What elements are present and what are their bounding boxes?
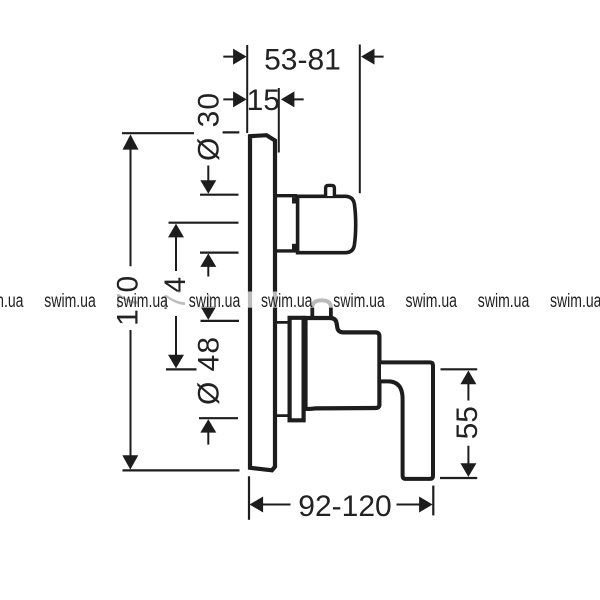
diameter 48 dimension stems — [207, 295, 209, 445]
arrow 170 top — [123, 134, 139, 149]
92-120 extension line right — [432, 486, 434, 516]
arrow 170 bottom — [122, 455, 138, 469]
arrow 74 bottom — [168, 355, 184, 369]
53-81 extension line right (knob tip) — [359, 45, 361, 194]
74 top extension line — [169, 222, 239, 224]
53-81 dimension stems — [223, 56, 383, 58]
diameter 48 top tick — [201, 320, 240, 322]
neck stubs joining plate to flange — [277, 322, 290, 415]
collar sleeve between plate and thermostat knob — [277, 196, 297, 251]
valve body (lower, behind flange) — [306, 318, 380, 409]
svg-text:92-120: 92-120 — [298, 490, 391, 523]
thermostat knob (upper handle) — [298, 196, 356, 252]
170 top tick — [122, 131, 239, 134]
arrow dia30 down — [200, 180, 216, 194]
diameter 30 dimension stems — [207, 166, 209, 277]
svg-text:15: 15 — [247, 84, 280, 117]
svg-text:swim.ua: swim.ua — [406, 290, 458, 312]
arrow 15 left — [233, 91, 247, 107]
knob top index tab — [326, 185, 335, 196]
svg-text:swim.ua: swim.ua — [189, 290, 241, 312]
svg-text:Ø 30: Ø 30 — [192, 92, 225, 161]
diameter 30 bottom tick — [200, 252, 239, 254]
170 dimension line — [130, 149, 132, 456]
arrow 74 top — [168, 224, 184, 238]
74 dimension line — [175, 237, 177, 355]
svg-text:swim.ua: swim.ua — [333, 290, 385, 312]
collar notch lower — [292, 244, 297, 250]
arrow 53-81 left — [233, 49, 247, 65]
watermark band overlay — [0, 292, 600, 308]
92-120 extension line left — [248, 476, 250, 520]
15 extension line right (plate front) — [278, 88, 280, 153]
92-120 dimension stems — [263, 504, 420, 506]
55 dimension stems — [467, 384, 469, 464]
svg-text:swim.ua: swim.ua — [117, 290, 169, 312]
diameter 48 bottom tick — [199, 417, 238, 419]
arrow dia30 up — [200, 253, 216, 267]
shut-off lever handle — [381, 362, 433, 479]
svg-text:55: 55 — [451, 406, 484, 439]
arrow 55 top — [460, 371, 476, 385]
arrow 53-81 right — [361, 49, 375, 65]
arrow 92-120 left — [250, 497, 264, 513]
arrow 55 bottom — [460, 463, 476, 477]
arrow dia48 up — [200, 419, 216, 432]
wall plate (escutcheon, side view) — [250, 135, 275, 470]
arrow 92-120 right — [419, 497, 433, 513]
watermark texts swim.ua — [0, 290, 600, 312]
mounting flange — [290, 318, 304, 421]
svg-text:swim.ua: swim.ua — [478, 290, 530, 312]
74 bottom tick — [166, 368, 197, 370]
arrow dia48 down — [200, 306, 216, 320]
arrow 15 right — [281, 91, 295, 107]
55 bottom tick — [440, 477, 477, 479]
svg-text:swim.ua: swim.ua — [261, 290, 313, 312]
svg-text:Ø 48: Ø 48 — [192, 336, 225, 405]
collar notch upper — [292, 197, 297, 203]
svg-text:53-81: 53-81 — [264, 43, 341, 76]
55 top tick — [441, 368, 478, 370]
svg-text:swim.ua: swim.ua — [550, 290, 600, 312]
170 bottom tick — [123, 469, 240, 471]
15 dimension stems — [223, 98, 303, 100]
53-81 extension line left (wall face) — [246, 45, 248, 133]
svg-text:swim.ua: swim.ua — [0, 290, 24, 312]
svg-text:swim.ua: swim.ua — [44, 290, 96, 312]
arch clip on body top — [312, 300, 331, 318]
diameter 30 top tick — [200, 194, 239, 196]
